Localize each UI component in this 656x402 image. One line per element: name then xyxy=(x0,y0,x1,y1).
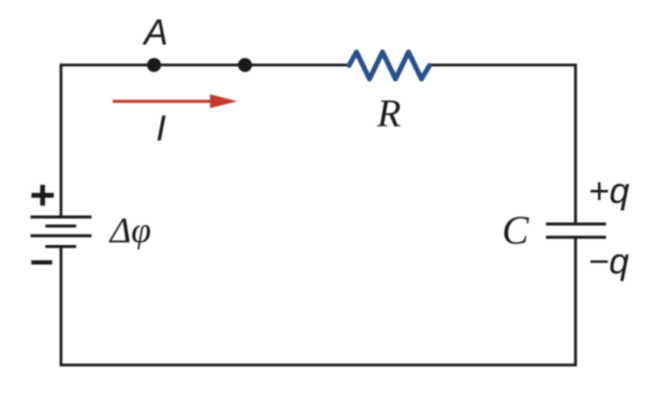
battery (Δφ source): long plate top xyxy=(31,216,92,219)
svg-text:C: C xyxy=(502,208,530,253)
battery minus sign xyxy=(31,260,52,264)
battery plus sign xyxy=(32,185,54,206)
resistor R xyxy=(349,52,430,79)
battery short plate upper xyxy=(45,225,76,228)
node A (switch contact dot left) xyxy=(147,58,161,72)
battery short plate bottom xyxy=(45,245,76,248)
wire left-top (battery positive terminal up left side and across top to resistor) xyxy=(61,65,349,217)
svg-text:−q: −q xyxy=(588,241,629,282)
wire bottom (capacitor bottom plate down, across bottom, up to battery negative terminal) xyxy=(61,237,576,365)
svg-text:Δφ: Δφ xyxy=(108,210,151,250)
capacitor C bottom plate xyxy=(546,236,606,239)
svg-text:I: I xyxy=(156,108,166,149)
svg-text:+q: +q xyxy=(588,170,629,211)
svg-text:R: R xyxy=(376,92,401,135)
capacitor C top plate xyxy=(546,223,606,226)
svg-text:A: A xyxy=(142,12,168,53)
current arrow I xyxy=(113,94,238,108)
battery long plate lower xyxy=(31,234,92,237)
wire top-right (resistor to capacitor top plate down right side) xyxy=(431,65,576,224)
switch contact dot right xyxy=(238,58,252,72)
